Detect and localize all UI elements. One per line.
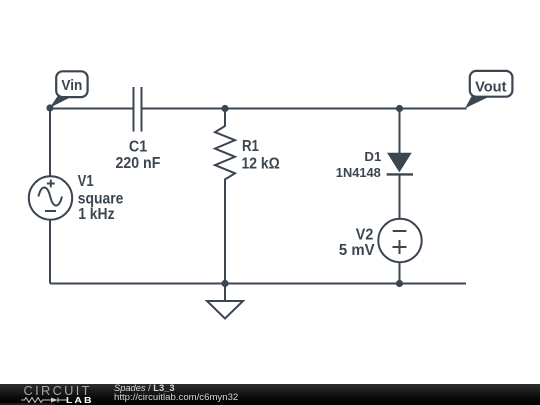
svg-text:1N4148: 1N4148	[336, 165, 381, 180]
svg-text:Vout: Vout	[475, 80, 506, 96]
svg-text:R1: R1	[242, 138, 259, 155]
svg-text:Vin: Vin	[61, 77, 82, 94]
svg-text:C1: C1	[129, 139, 147, 156]
svg-text:V1: V1	[78, 173, 94, 190]
svg-text:square: square	[78, 191, 124, 208]
svg-text:D1: D1	[364, 149, 381, 164]
svg-text:1 kHz: 1 kHz	[78, 206, 114, 223]
svg-text:5 mV: 5 mV	[339, 242, 375, 259]
svg-text:220 nF: 220 nF	[116, 155, 161, 172]
svg-text:12 kΩ: 12 kΩ	[242, 156, 280, 173]
